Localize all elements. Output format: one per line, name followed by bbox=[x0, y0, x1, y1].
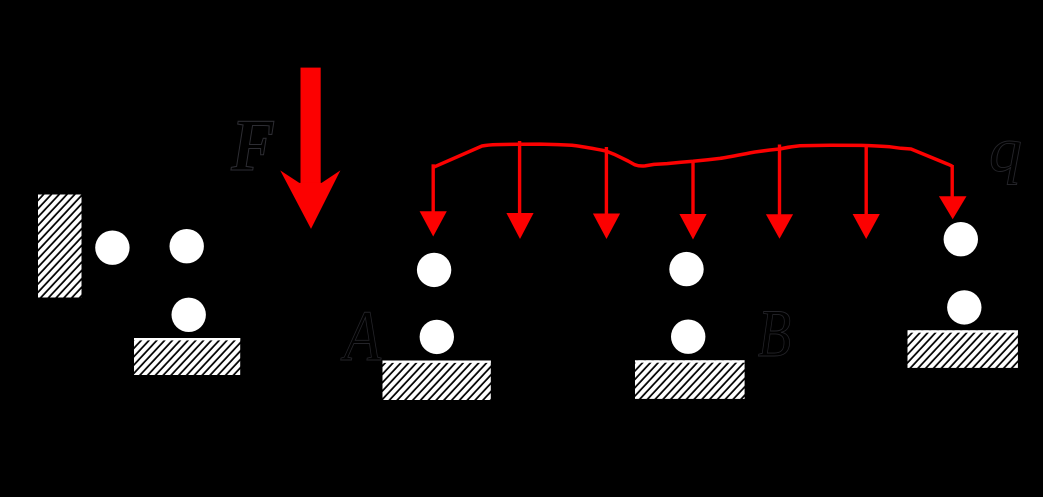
svg-text:F: F bbox=[230, 105, 275, 187]
svg-text:q: q bbox=[989, 114, 1022, 185]
svg-text:B: B bbox=[758, 295, 791, 371]
svg-text:A: A bbox=[341, 296, 382, 376]
